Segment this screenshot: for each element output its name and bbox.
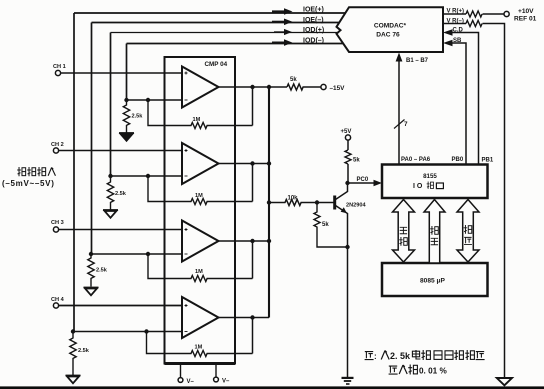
wire bus B1-B7 xyxy=(398,60,400,164)
wire VR(-) to ground xyxy=(483,24,505,378)
ground ch2 xyxy=(103,210,118,218)
wire common output bus xyxy=(268,87,270,318)
svg-text:2. 5k: 2. 5k xyxy=(390,351,411,361)
node base xyxy=(315,200,319,204)
feedback drop 2 xyxy=(252,164,254,202)
svg-text:PC0: PC0 xyxy=(357,177,369,183)
svg-text:I O: I O xyxy=(413,183,423,190)
wire IOE(+) top row 1 xyxy=(74,12,346,14)
resistor 1M fb3 xyxy=(148,254,253,282)
wire SB xyxy=(450,43,466,164)
svg-text:CH 4: CH 4 xyxy=(51,297,65,303)
resistor 1M fb1 xyxy=(148,100,253,129)
svg-text:IOE(+): IOE(+) xyxy=(303,7,324,14)
svg-text:+10V: +10V xyxy=(518,8,534,15)
svg-text::: : xyxy=(374,352,377,361)
node emitter/5k xyxy=(345,245,349,249)
svg-text:1M: 1M xyxy=(193,117,201,123)
svg-text:V–: V– xyxy=(222,379,230,385)
op-amp U1 COMDAC DAC-76 xyxy=(337,7,444,52)
arrow on row 3 xyxy=(274,29,292,35)
op-amp A2 xyxy=(182,143,219,184)
wire VR(+) xyxy=(443,13,466,15)
svg-text:B1 – B7: B1 – B7 xyxy=(406,58,429,64)
svg-text:2.5k: 2.5k xyxy=(115,191,127,197)
svg-text:SB: SB xyxy=(453,38,462,44)
ground ch1 xyxy=(119,133,134,141)
resistor 1M fb2 xyxy=(148,176,253,205)
resistor 5k pull-down xyxy=(287,84,321,90)
wire C,D xyxy=(450,33,479,165)
wire vertical v4 xyxy=(126,44,128,101)
wire output row 3 xyxy=(219,240,270,242)
label analog input xyxy=(2,167,55,188)
comparator box CMP-04 xyxy=(165,57,236,364)
wire output row 1 xyxy=(219,86,288,88)
wire CH3 row xyxy=(59,229,182,231)
ground (open arrow) for VR(-) xyxy=(497,378,512,385)
svg-text:2.5k: 2.5k xyxy=(132,114,144,120)
node PC0/collector xyxy=(345,181,349,185)
resistor 5k base-emitter xyxy=(314,203,348,248)
svg-text:0. 01 %: 0. 01 % xyxy=(419,367,447,376)
wire CH4 row xyxy=(59,305,182,307)
wire PC0 xyxy=(348,182,376,184)
IC 8155 I/O port xyxy=(382,165,488,199)
svg-text:CH 2: CH 2 xyxy=(51,142,64,148)
svg-text:V R(–): V R(–) xyxy=(447,18,464,24)
svg-text:2.5k: 2.5k xyxy=(78,348,90,354)
bottom scan edge bar xyxy=(0,386,544,389)
arrow on row 4 xyxy=(272,39,293,46)
feedback drop 1 xyxy=(252,87,254,126)
resistor 2.5k ch4 xyxy=(70,332,76,376)
wire IOD(-) top row 4 xyxy=(127,43,344,45)
svg-text:IOD(–): IOD(–) xyxy=(303,38,324,45)
svg-text:PB1: PB1 xyxy=(482,158,494,164)
terminal +10V REF-01 xyxy=(504,11,509,16)
box bottom thick edge xyxy=(165,362,236,365)
ground ch3 xyxy=(84,288,99,296)
op-amp A4 xyxy=(182,297,219,338)
ground ch4 xyxy=(66,376,81,384)
svg-text:2N2904: 2N2904 xyxy=(346,203,366,209)
resistor 2.5k ch2 xyxy=(107,176,113,210)
svg-text:V–: V– xyxy=(187,379,195,385)
wire vertical v1 xyxy=(73,13,75,332)
svg-text:IOE(–): IOE(–) xyxy=(303,17,324,24)
wire CH2 row xyxy=(59,150,182,152)
terminal -15V xyxy=(321,84,326,89)
svg-text:REF 01: REF 01 xyxy=(514,16,537,23)
svg-text:C.D: C.D xyxy=(453,27,464,33)
svg-text:5k: 5k xyxy=(353,158,360,164)
arrow on row 2 xyxy=(272,19,293,26)
svg-text:5k: 5k xyxy=(290,77,297,83)
note text line 1 xyxy=(365,350,485,361)
resistor 2.5k ch1 xyxy=(123,100,129,133)
node row 1 xyxy=(127,99,183,101)
terminal V- right xyxy=(215,364,217,378)
svg-text:10k: 10k xyxy=(288,196,299,202)
op-amp A3 xyxy=(182,221,219,262)
node row 2 xyxy=(111,175,183,177)
node 10k/common xyxy=(267,200,271,204)
bus arrow control (bidirectional) xyxy=(457,200,479,263)
arrowhead SB into DAC xyxy=(443,40,453,47)
svg-text:IOD(+): IOD(+) xyxy=(303,27,324,34)
feedback drop 4 xyxy=(252,318,254,354)
IC 8085 microprocessor xyxy=(382,263,488,296)
svg-text:PB0: PB0 xyxy=(452,157,464,163)
wire CH1 row xyxy=(61,72,182,74)
node row 4 xyxy=(73,331,182,333)
arrowhead PC0 into 8155 xyxy=(374,180,383,186)
svg-text:V R(+): V R(+) xyxy=(447,9,465,15)
bus arrow address (up) xyxy=(424,200,445,264)
svg-text:5k: 5k xyxy=(322,222,329,228)
arrow on row 1 xyxy=(272,8,293,15)
feedback drop 3 xyxy=(252,241,254,279)
bus slash 7 xyxy=(394,120,405,129)
svg-text:COMDAC*: COMDAC* xyxy=(374,23,407,30)
svg-text:–15V: –15V xyxy=(330,85,346,92)
op-amp A1 xyxy=(182,67,219,108)
svg-text:PA0 – PA6: PA0 – PA6 xyxy=(401,157,431,163)
note text line 2 xyxy=(389,365,448,376)
transistor Q1 2N2904 xyxy=(317,183,366,377)
wire vertical v3 xyxy=(110,33,112,177)
svg-text:8155: 8155 xyxy=(423,173,437,180)
wire xyxy=(347,164,349,183)
resistor 5k pull-up xyxy=(345,150,351,164)
resistor 10k xyxy=(269,200,317,206)
wire output row 4 xyxy=(219,317,270,319)
resistor VR(+) series xyxy=(466,11,482,17)
wire IOE(-) top row 2 xyxy=(92,22,340,24)
svg-text:2.5k: 2.5k xyxy=(96,268,108,274)
svg-text:+5V: +5V xyxy=(341,129,352,135)
wire output row 2 xyxy=(219,163,270,165)
wire xyxy=(347,140,349,150)
svg-text:(–5mV~–5V): (–5mV~–5V) xyxy=(2,179,55,188)
svg-text:1M: 1M xyxy=(195,269,203,275)
svg-text:8085 μP: 8085 μP xyxy=(420,278,446,285)
bus arrow data (bidirectional) xyxy=(393,200,415,263)
terminal +5V xyxy=(345,135,350,140)
wire VR(-) xyxy=(443,23,466,25)
svg-text:DAC 76: DAC 76 xyxy=(376,32,400,39)
node row 3 xyxy=(91,253,182,255)
ground (3-bar) emitter xyxy=(342,378,354,384)
svg-text:1M: 1M xyxy=(195,345,203,351)
resistor 1M fb4 xyxy=(147,332,253,357)
resistor VR(-) series xyxy=(466,21,482,27)
arrowhead B1-B7 into DAC xyxy=(396,53,403,62)
arrowhead C,D into DAC xyxy=(443,29,453,36)
svg-text:CMP 04: CMP 04 xyxy=(205,61,228,68)
svg-text:CH 3: CH 3 xyxy=(51,220,64,226)
wire IOD(+) top row 3 xyxy=(111,32,339,34)
terminal V- left xyxy=(180,364,182,378)
svg-text:7: 7 xyxy=(404,121,408,128)
wire vertical v2 xyxy=(91,23,93,255)
svg-text:1M: 1M xyxy=(195,193,203,199)
svg-text:CH 1: CH 1 xyxy=(53,64,66,70)
resistor 2.5k ch3 xyxy=(88,254,94,287)
